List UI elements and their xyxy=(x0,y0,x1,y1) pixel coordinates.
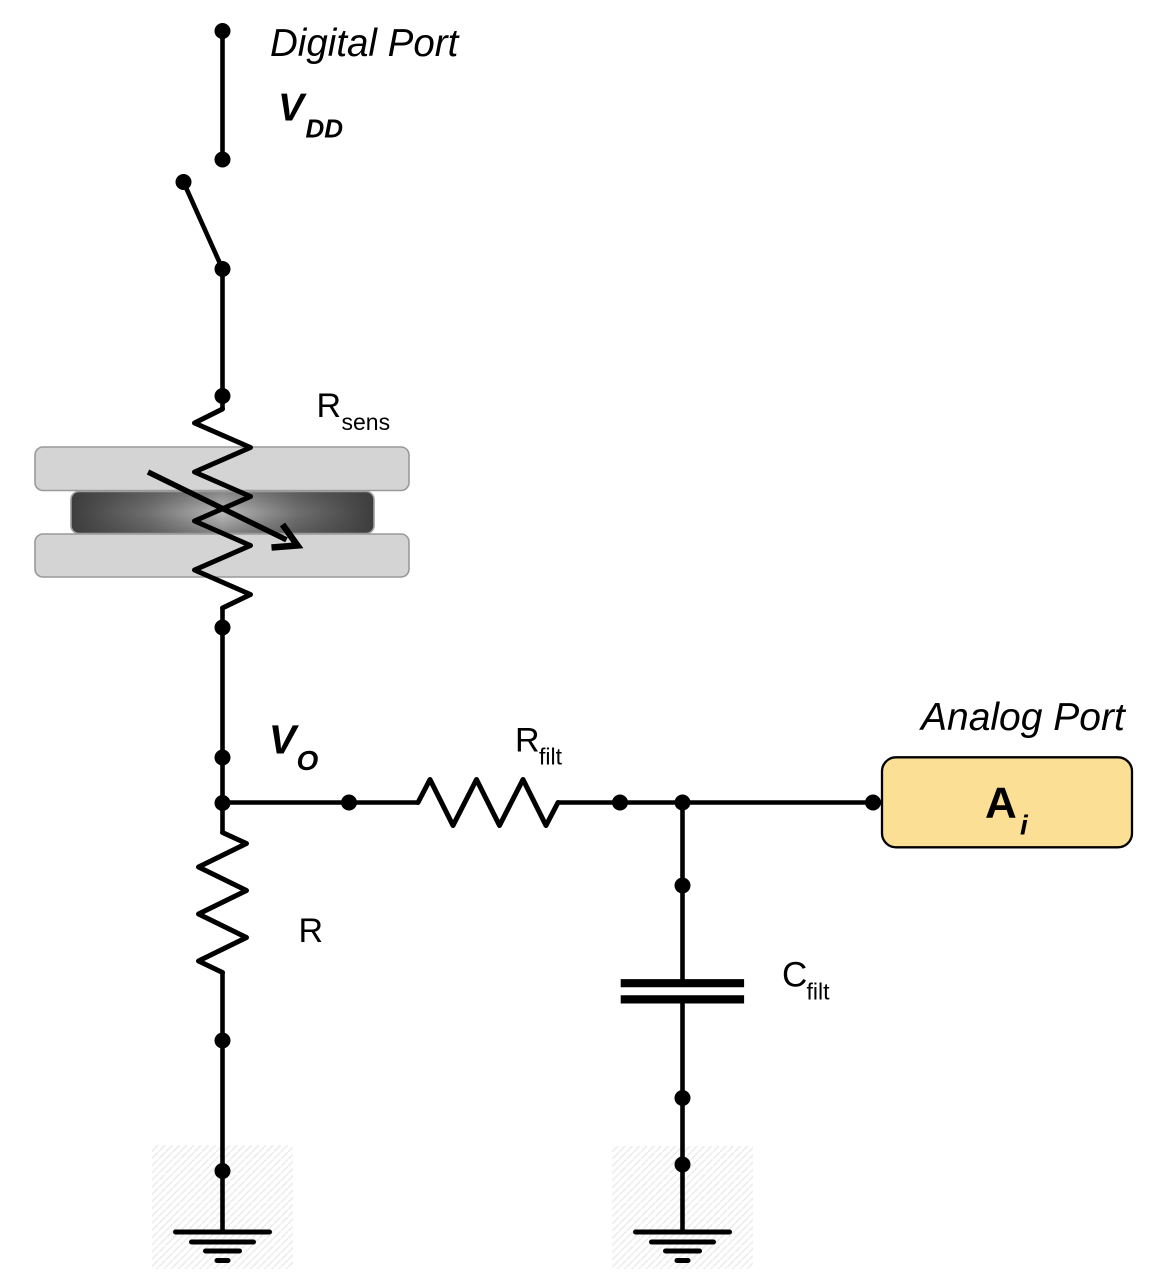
FSR sensor top pad xyxy=(35,447,409,491)
wire switch to Rsens xyxy=(220,269,225,409)
node dot Cfilt junction xyxy=(675,795,691,811)
resistor Rfilt zigzag xyxy=(418,780,558,826)
arrow head chevron xyxy=(272,525,298,548)
node dot on wire to Rfilt xyxy=(341,795,357,811)
switch SW1 arm xyxy=(184,182,223,269)
node dot switch bottom xyxy=(215,261,231,277)
svg-text:R: R xyxy=(299,912,324,950)
svg-text:V: V xyxy=(278,87,307,130)
wire node to Cfilt xyxy=(680,803,685,980)
node dot below Rsens xyxy=(215,620,231,636)
node dot above right ground xyxy=(675,1157,691,1173)
svg-text:V: V xyxy=(269,717,300,763)
svg-text:filt: filt xyxy=(539,744,563,770)
ground left xyxy=(176,1232,270,1261)
svg-text:filt: filt xyxy=(807,979,831,1005)
wire node Vo to Rfilt xyxy=(223,800,419,805)
wire R to ground xyxy=(220,973,225,1233)
svg-text:R: R xyxy=(515,722,540,760)
svg-text:Digital Port: Digital Port xyxy=(270,22,461,65)
node dot switch left xyxy=(176,174,192,190)
hatch background right ground xyxy=(612,1146,753,1269)
resistor Rsens zigzag xyxy=(195,409,251,608)
wire VDD terminal to switch xyxy=(220,31,225,160)
node dot above Vo junction xyxy=(215,750,231,766)
ground right xyxy=(636,1232,730,1261)
svg-text:C: C xyxy=(782,956,807,995)
node dot above switch xyxy=(215,152,231,168)
node dot after Rfilt xyxy=(612,795,628,811)
node dot above left ground xyxy=(215,1163,231,1179)
node dot below Cfilt xyxy=(675,1090,691,1106)
svg-text:Analog Port: Analog Port xyxy=(919,696,1127,739)
analog port box Ai xyxy=(882,757,1132,847)
capacitor Cfilt bottom plate xyxy=(621,995,744,1003)
svg-text:DD: DD xyxy=(306,114,344,144)
node dot above Rsens xyxy=(215,388,231,404)
wire Rfilt to analog port xyxy=(558,800,882,805)
capacitor Cfilt top plate xyxy=(621,979,744,987)
wire Cfilt to ground xyxy=(680,1003,685,1232)
svg-text:sens: sens xyxy=(342,409,391,435)
node dot below junction xyxy=(675,878,691,894)
resistor R zigzag xyxy=(199,833,247,973)
node dot Vo junction xyxy=(215,795,231,811)
svg-text:R: R xyxy=(317,387,342,425)
wire Rsens to node Vo xyxy=(220,608,225,833)
node dot VDD terminal xyxy=(215,23,231,39)
hatch background left ground xyxy=(152,1145,293,1269)
svg-text:i: i xyxy=(1020,810,1029,841)
FSR sensor active layer xyxy=(71,492,374,534)
svg-text:A: A xyxy=(985,779,1017,828)
svg-text:O: O xyxy=(297,745,319,776)
arrow through Rsens shaft xyxy=(148,472,287,540)
node dot below R xyxy=(215,1033,231,1049)
FSR sensor bottom pad xyxy=(35,534,409,577)
node dot at analog port xyxy=(865,795,881,811)
